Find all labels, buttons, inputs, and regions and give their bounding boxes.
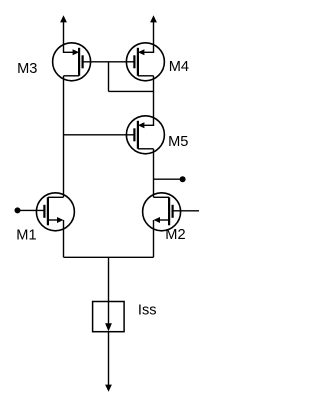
- input terminal dot: [15, 207, 21, 213]
- wire gate bus M3-M4: [83, 61, 135, 63]
- output terminal dot: [180, 176, 186, 182]
- VDD arrow left: [60, 15, 67, 52]
- wire M5 drain to M2 drain: [153, 149, 155, 198]
- wire tail stem to Iss: [108, 257, 110, 301]
- svg-text:Iss: Iss: [138, 303, 157, 319]
- wire left rail M3 drain to M1 drain: [63, 76, 65, 197]
- wire M1 source down: [63, 220, 65, 257]
- transistor M4: [126, 43, 164, 81]
- transistor M2: [143, 193, 181, 231]
- svg-text:M4: M4: [169, 59, 189, 75]
- wire non-inverting input stub: [173, 210, 199, 212]
- wire gate-to-drain tie horizontal: [109, 90, 154, 92]
- svg-text:M5: M5: [168, 134, 188, 150]
- VSS arrow down: [105, 385, 112, 392]
- transistor M3: [53, 43, 91, 81]
- wire tail bus: [64, 256, 154, 258]
- wire output stub: [154, 178, 183, 180]
- wire through Iss box: [108, 302, 110, 326]
- wire M5 gate to left rail: [64, 134, 135, 136]
- VDD arrow right: [150, 15, 157, 52]
- svg-text:M2: M2: [165, 227, 185, 243]
- wire gate-to-drain tie vertical: [108, 62, 110, 92]
- transistor M5: [126, 116, 164, 154]
- svg-text:M1: M1: [16, 227, 36, 243]
- transistor M1: [36, 193, 74, 231]
- wire inverting input stub: [18, 209, 45, 211]
- wire M4 drain to M5 source: [153, 76, 155, 126]
- current source Iss box: [93, 302, 125, 332]
- Iss arrow inside box: [105, 323, 112, 331]
- wire Iss to VSS arrow: [108, 332, 110, 386]
- wire M2 source down: [153, 220, 155, 257]
- svg-text:M3: M3: [17, 61, 37, 77]
